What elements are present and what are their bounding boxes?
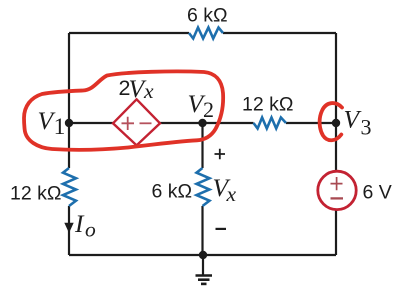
- wire dependent source right terminal to V2 and on to 12k resistor: [160, 122, 254, 124]
- wire 12k resistor to V3: [286, 122, 336, 124]
- dependent source minus sign: [140, 122, 152, 124]
- resistor 12k middle horizontal zigzag: [254, 118, 287, 129]
- wire 6V source down to bottom rail: [335, 210, 337, 255]
- wire V2 down to middle 6k resistor: [201, 123, 203, 168]
- svg-text:1: 1: [54, 114, 66, 140]
- annotation red open ellipse around V3: [320, 103, 342, 140]
- node ground dot: [199, 251, 207, 259]
- wire top-left vertical V1 up: [68, 33, 70, 123]
- svg-text:6 V: 6 V: [363, 181, 392, 203]
- wire left branch below resistor to bottom rail: [68, 206, 70, 255]
- resistor R 6k top zigzag: [189, 28, 223, 39]
- resistor 12k left vertical zigzag: [63, 168, 76, 206]
- ground stub wire: [202, 255, 204, 275]
- svg-text:I: I: [74, 209, 85, 238]
- current arrow Io head: [64, 223, 73, 233]
- svg-text:3: 3: [361, 115, 372, 140]
- wire V1 down to left 12k resistor: [68, 123, 70, 168]
- node V2 dot: [198, 119, 206, 127]
- svg-text:o: o: [85, 218, 96, 242]
- annotation red loop around V1 and 2Vx source: [24, 71, 223, 149]
- node V3 dot: [332, 119, 340, 127]
- wire V3 down to 6V source: [335, 123, 337, 171]
- wire top-right vertical down to V3: [335, 33, 337, 123]
- svg-text:x: x: [143, 79, 154, 103]
- ground bar 1: [196, 274, 213, 277]
- wire top horizontal right of 6k resistor: [223, 32, 336, 34]
- voltage source 6V circle: [318, 171, 356, 209]
- label plus above Vx: [215, 149, 226, 159]
- label minus below Vx: [216, 228, 227, 230]
- wire top horizontal left of 6k resistor: [69, 32, 189, 34]
- svg-text:12 kΩ: 12 kΩ: [10, 183, 61, 205]
- svg-text:12 kΩ: 12 kΩ: [242, 94, 293, 116]
- ground bar 3: [201, 283, 207, 286]
- svg-text:6 kΩ: 6 kΩ: [187, 5, 228, 27]
- wire V1 to dependent source left terminal: [69, 122, 113, 124]
- wire middle branch below resistor to bottom rail: [201, 206, 203, 255]
- dependent source plus sign: [122, 117, 135, 130]
- voltage source plus sign: [331, 177, 343, 190]
- svg-text:x: x: [226, 182, 237, 206]
- dependent source 2Vx diamond: [113, 99, 160, 145]
- wire bottom rail: [69, 254, 336, 256]
- svg-text:6 kΩ: 6 kΩ: [152, 181, 193, 203]
- ground bar 2: [198, 278, 210, 281]
- resistor 6k middle vertical zigzag: [197, 168, 210, 206]
- node V1 dot: [65, 119, 73, 127]
- voltage source minus sign: [331, 197, 344, 199]
- svg-text:2: 2: [203, 97, 214, 122]
